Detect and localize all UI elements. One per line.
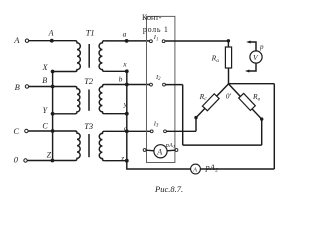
svg-text:C: C bbox=[42, 121, 48, 130]
svg-text:C: C bbox=[13, 126, 19, 136]
wire switch I2 exit bbox=[166, 84, 183, 86]
node Z bbox=[51, 159, 55, 163]
node A bbox=[50, 39, 54, 43]
wire switch I3 to resistor Rc bottom bbox=[167, 130, 197, 132]
svg-text:I1: I1 bbox=[153, 34, 159, 42]
svg-text:Rв: Rв bbox=[252, 92, 261, 102]
wire Rv bottom drop bbox=[261, 119, 263, 145]
ammeter pA1 bbox=[154, 145, 167, 158]
ammeter pA1 right terminal bbox=[175, 149, 178, 152]
wire T1 secondary bottom to node x bbox=[104, 70, 127, 72]
node b bbox=[125, 83, 129, 87]
svg-text:0′: 0′ bbox=[226, 92, 232, 101]
wire T2 secondary top through node b to switch I2 bbox=[104, 84, 150, 86]
switch I1 bbox=[150, 40, 153, 43]
svg-text:роль 1: роль 1 bbox=[143, 25, 169, 34]
svg-text:y: y bbox=[123, 100, 128, 109]
node c bbox=[125, 129, 129, 133]
transformer T2 secondary winding bbox=[99, 85, 104, 114]
svg-text:I2: I2 bbox=[155, 74, 161, 82]
node a bbox=[125, 39, 129, 43]
wire node 0' to right riser bbox=[229, 83, 275, 85]
voltmeter pV bbox=[250, 51, 262, 63]
wire Ra top stub bbox=[227, 41, 229, 47]
node z bbox=[125, 159, 129, 163]
svg-text:x: x bbox=[122, 60, 127, 69]
wire pA1 meter to right terminal bbox=[167, 149, 175, 152]
svg-text:T3: T3 bbox=[84, 121, 93, 131]
wire phase A to T1 primary bbox=[29, 40, 76, 42]
wire phase B to T2 primary bbox=[29, 86, 76, 88]
voltmeter bottom probe arrowhead bbox=[245, 70, 249, 73]
ammeter pA1 left terminal bbox=[143, 149, 146, 152]
node x bbox=[125, 69, 129, 73]
svg-text:Y: Y bbox=[43, 106, 49, 115]
svg-text:Ra: Ra bbox=[211, 53, 220, 63]
node y bbox=[125, 112, 129, 116]
svg-text:A: A bbox=[48, 29, 54, 38]
svg-text:a: a bbox=[123, 30, 127, 39]
svg-text:b: b bbox=[119, 75, 123, 84]
svg-text:A: A bbox=[13, 35, 20, 45]
svg-text:A: A bbox=[192, 167, 197, 173]
wire node 0' to Rv bbox=[229, 84, 262, 119]
transformer T3 secondary winding bbox=[99, 131, 104, 160]
wire switch I1 to resistor Ra top bbox=[165, 40, 228, 42]
phase terminal 0 bbox=[24, 159, 27, 162]
svg-text:pA2: pA2 bbox=[205, 163, 219, 173]
wire Rc bottom vertical bbox=[195, 118, 197, 132]
transformer T2 core bbox=[88, 90, 90, 111]
ammeter pA2 bbox=[191, 164, 201, 174]
control panel box bbox=[147, 16, 175, 162]
wire Y to T2 primary bottom bbox=[53, 113, 76, 115]
node Ra top bbox=[227, 39, 230, 42]
transformer T3 primary winding bbox=[75, 131, 80, 161]
svg-text:T2: T2 bbox=[84, 76, 94, 86]
wire right riser bbox=[273, 84, 275, 169]
svg-text:Рис.8.7.: Рис.8.7. bbox=[154, 184, 183, 194]
node Rv bottom bbox=[260, 117, 263, 120]
svg-text:T1: T1 bbox=[86, 27, 95, 37]
wire right bus x-b-y-c-z bbox=[126, 71, 128, 160]
svg-text:0: 0 bbox=[14, 154, 19, 164]
svg-text:A: A bbox=[156, 148, 162, 157]
node B bbox=[51, 85, 55, 89]
wire T1 secondary top through node a to switch I1 bbox=[104, 40, 150, 42]
wire I2 to resistor Rv bottom bbox=[183, 144, 262, 146]
wire I2 vertical drop bbox=[182, 85, 184, 146]
voltmeter bottom probe lead bbox=[248, 63, 256, 71]
wire Ra bottom to node 0' bbox=[228, 68, 230, 84]
wire z drop to bottom run bbox=[127, 161, 191, 169]
transformer T1 secondary winding bbox=[99, 41, 104, 72]
wire T2 secondary bottom to node y bbox=[104, 113, 127, 115]
node C bbox=[51, 129, 55, 133]
transformer T1 primary winding bbox=[75, 41, 80, 72]
phase terminal C bbox=[25, 129, 28, 132]
wire pA2 to right riser bbox=[200, 168, 274, 170]
switch I3 bbox=[150, 130, 153, 133]
svg-text:Конт-: Конт- bbox=[142, 13, 162, 22]
resistor Rc bbox=[202, 94, 219, 111]
wire phase C to T3 primary bbox=[28, 130, 75, 132]
wire T3 secondary top through node c to switch I3 bbox=[104, 130, 150, 132]
svg-text:I3: I3 bbox=[153, 120, 159, 128]
resistor Rv bbox=[239, 93, 256, 110]
svg-text:Rc: Rc bbox=[199, 92, 208, 102]
svg-text:Z: Z bbox=[47, 151, 52, 160]
svg-text:B: B bbox=[15, 82, 20, 92]
voltmeter top probe lead bbox=[250, 42, 257, 51]
svg-text:X: X bbox=[42, 63, 49, 72]
phase terminal B bbox=[25, 85, 28, 88]
wire X to T1 primary bottom bbox=[53, 71, 76, 73]
node Y bbox=[51, 112, 55, 116]
wire phase 0 through Z to T3 primary bottom bbox=[27, 160, 75, 162]
svg-text:z: z bbox=[120, 153, 124, 162]
voltmeter top probe arrowhead bbox=[246, 41, 250, 44]
transformer T3 core bbox=[88, 134, 90, 157]
wire left bus X-B-Y-C-Z bbox=[52, 72, 54, 161]
wire T3 secondary bottom to node z bbox=[104, 160, 127, 162]
switch I2 bbox=[150, 83, 153, 86]
transformer T1 core bbox=[88, 44, 90, 68]
phase terminal A bbox=[25, 39, 28, 42]
wire node 0' to Rc bbox=[196, 84, 229, 118]
node X bbox=[51, 70, 55, 74]
svg-text:p: p bbox=[259, 43, 264, 51]
svg-text:B: B bbox=[42, 76, 47, 85]
node Rc bottom bbox=[194, 116, 197, 119]
transformer T2 primary winding bbox=[75, 87, 80, 114]
resistor Ra bbox=[225, 47, 231, 68]
wire pA1 left terminal to meter bbox=[146, 149, 154, 152]
svg-text:pA1: pA1 bbox=[165, 142, 176, 149]
